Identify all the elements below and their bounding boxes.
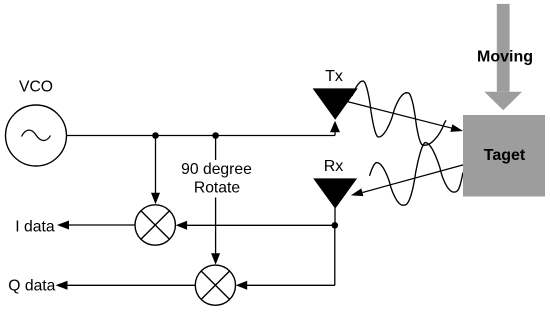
svg-text:I data: I data	[15, 218, 55, 235]
target box	[463, 115, 545, 197]
arrow Moving	[497, 4, 510, 92]
wire feed Tx	[334, 132, 336, 136]
wire node2 to mixer2	[215, 198, 217, 255]
mixer U2	[195, 265, 235, 305]
wave Tx to target	[352, 81, 446, 145]
svg-text:Taget: Taget	[484, 147, 526, 164]
wire Rx node to mixer1	[187, 224, 335, 226]
svg-text:Moving: Moving	[477, 49, 533, 66]
wire node2 down upper segment	[215, 136, 217, 161]
arrow target to Rx	[363, 165, 465, 193]
junction node Rx	[332, 222, 339, 229]
antenna Rx	[313, 178, 357, 208]
svg-text:Rotate: Rotate	[194, 180, 240, 197]
wire Rx node down	[334, 225, 336, 285]
junction node 2	[212, 132, 219, 139]
wire to mixer2	[247, 284, 335, 286]
svg-text:Q data: Q data	[8, 278, 55, 295]
wire Rx stem	[334, 208, 336, 225]
wave target to Rx	[370, 143, 464, 206]
junction node 1	[152, 132, 159, 139]
svg-text:VCO: VCO	[19, 79, 53, 96]
wire mixer1 to I data	[68, 224, 135, 226]
svg-text:Tx: Tx	[325, 68, 343, 85]
oscillator VCO	[6, 105, 67, 166]
wire mixer2 to Q data	[67, 284, 195, 286]
antenna Tx	[313, 88, 358, 119]
svg-text:Rx: Rx	[324, 158, 344, 175]
wire VCO to Tx	[67, 135, 336, 137]
arrow Tx to target	[347, 102, 452, 129]
mixer U1	[135, 205, 175, 245]
svg-text:90 degree: 90 degree	[181, 161, 252, 178]
wire node1 to mixer1	[155, 136, 157, 195]
